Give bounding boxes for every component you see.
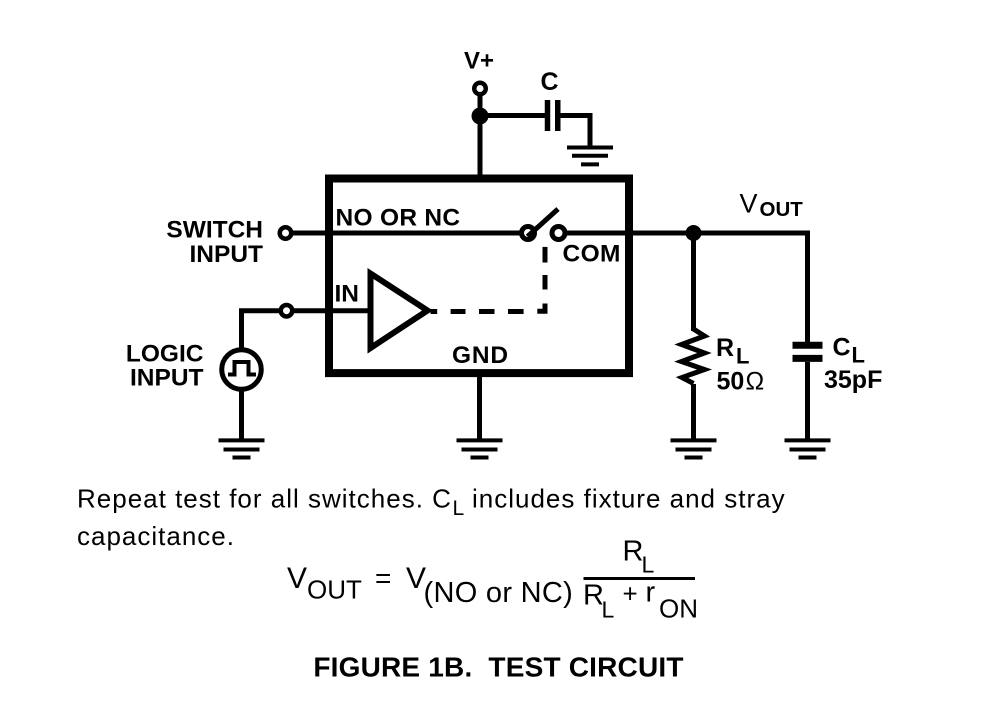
wire V+ node to capacitor C — [478, 113, 547, 118]
svg-text:Repeat test for all switches.: Repeat test for all switches. C — [77, 484, 452, 514]
wire output node to resistor RL — [691, 238, 696, 331]
wire output node to capacitor CL — [805, 233, 808, 342]
svg-text:OUT: OUT — [760, 198, 804, 221]
wire switch input to switch pole — [293, 231, 521, 236]
svg-text:C: C — [540, 68, 558, 96]
svg-text:OUT: OUT — [307, 575, 362, 605]
svg-text:R: R — [623, 536, 644, 568]
switch S1 pole circle left — [522, 227, 535, 240]
svg-text:includes fixture and stray: includes fixture and stray — [472, 484, 786, 514]
svg-text:V: V — [287, 562, 307, 595]
terminal switch input — [280, 227, 292, 239]
ground (GND pin) — [457, 440, 503, 457]
switch S1 pole circle right — [552, 227, 565, 240]
note text line 1 — [77, 484, 786, 521]
svg-text:capacitance.: capacitance. — [77, 521, 235, 551]
svg-text:L: L — [852, 343, 865, 368]
label 50 ohm — [717, 368, 765, 396]
label VOUT — [740, 189, 804, 221]
pulse waveform symbol — [228, 362, 256, 375]
ground (resistor RL) — [671, 440, 717, 457]
svg-text:r: r — [646, 577, 656, 609]
label LOGIC INPUT — [126, 340, 204, 391]
svg-text:SWITCH: SWITCH — [166, 217, 263, 244]
terminal V+ — [474, 83, 486, 95]
svg-text:50: 50 — [717, 368, 745, 396]
capacitor C — [548, 100, 558, 131]
switch S1 lever — [528, 209, 559, 237]
ground (capacitor C) — [567, 148, 613, 165]
svg-text:V+: V+ — [464, 48, 494, 75]
svg-text:L: L — [453, 497, 465, 520]
svg-text:COM: COM — [563, 241, 621, 268]
svg-text:GND: GND — [452, 342, 509, 369]
svg-text:INPUT: INPUT — [130, 365, 204, 392]
wire pulse source to ground — [239, 389, 244, 441]
wire GND pin to ground — [477, 376, 482, 441]
wire COM to output node — [566, 231, 808, 236]
svg-text:Ω: Ω — [746, 368, 765, 396]
label CL — [833, 334, 865, 368]
svg-text:C: C — [833, 334, 851, 362]
pulse source V1 — [222, 350, 262, 390]
svg-text:=: = — [375, 563, 391, 594]
svg-text:(NO or NC): (NO or NC) — [424, 577, 574, 609]
wire logic input to buffer — [294, 308, 371, 313]
equation fraction bar — [584, 577, 696, 580]
wire pulse source to logic terminal — [242, 311, 280, 348]
svg-text:INPUT: INPUT — [190, 241, 264, 268]
svg-text:LOGIC: LOGIC — [126, 340, 204, 367]
svg-text:35pF: 35pF — [824, 366, 882, 394]
svg-text:FIGURE 1B. TEST CIRCUIT: FIGURE 1B. TEST CIRCUIT — [313, 651, 683, 682]
wire capacitor CL to ground — [805, 362, 810, 441]
svg-text:IN: IN — [335, 281, 360, 308]
svg-text:+: + — [623, 579, 638, 609]
svg-text:L: L — [602, 597, 615, 623]
wire resistor RL to ground — [691, 384, 696, 441]
junction output node — [686, 225, 702, 241]
resistor RL — [682, 329, 705, 384]
terminal logic input — [281, 305, 293, 317]
wire V+ to box top — [478, 94, 483, 180]
equation VOUT — [287, 562, 573, 609]
capacitor CL — [793, 345, 823, 358]
svg-text:L: L — [642, 552, 655, 578]
wire capacitor C to ground — [558, 116, 590, 149]
svg-text:V: V — [740, 189, 758, 219]
svg-text:ON: ON — [659, 594, 698, 624]
ground (pulse source) — [219, 440, 265, 457]
ground (capacitor CL) — [785, 440, 831, 457]
equation fraction denominator RL + rON — [583, 577, 698, 624]
dashed control line — [431, 247, 546, 312]
svg-text:R: R — [716, 334, 734, 362]
op-amp buffer A1 — [371, 274, 428, 349]
IC box U1 — [329, 179, 629, 374]
label RL — [716, 334, 749, 369]
junction V+ node — [472, 108, 489, 125]
equation fraction numerator RL — [623, 536, 655, 578]
svg-text:NO OR NC: NO OR NC — [336, 204, 461, 231]
svg-text:L: L — [736, 344, 749, 369]
label SWITCH INPUT — [166, 217, 263, 269]
